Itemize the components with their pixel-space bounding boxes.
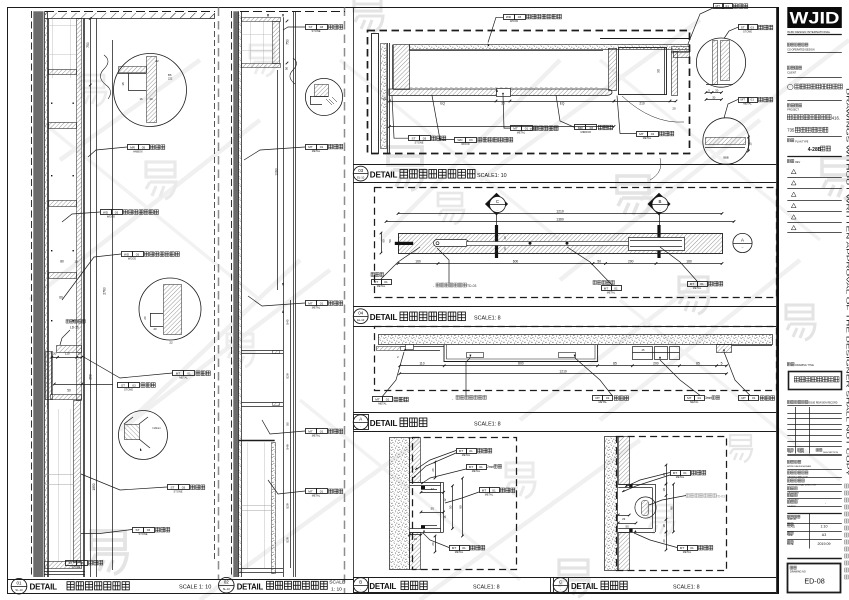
svg-text:B: B — [659, 199, 662, 204]
svg-text:EL-10: EL-10 — [357, 175, 365, 179]
svg-text:DRAWING NO: DRAWING NO — [790, 571, 806, 574]
svg-text:50: 50 — [597, 259, 601, 263]
svg-text:55: 55 — [431, 507, 435, 511]
svg-text:ST: ST — [309, 25, 313, 29]
svg-text:DETAIL: DETAIL — [370, 419, 398, 428]
svg-text:210: 210 — [639, 102, 645, 106]
svg-text:WOOD: WOOD — [128, 257, 136, 261]
svg-text:MT: MT — [469, 465, 474, 469]
svg-text:ST: ST — [171, 486, 175, 490]
svg-text:SL-10: SL-10 — [15, 588, 23, 592]
svg-text:528: 528 — [286, 373, 290, 378]
svg-text:=10mm: =10mm — [152, 426, 161, 430]
svg-text:1850: 1850 — [92, 483, 96, 490]
svg-text:01: 01 — [462, 546, 466, 550]
svg-text:DATE: DATE — [799, 451, 805, 454]
svg-text:ST: ST — [121, 383, 125, 387]
svg-text:ST: ST — [69, 561, 73, 565]
svg-text:ISSUE REVISION RECORD: ISSUE REVISION RECORD — [808, 402, 837, 404]
svg-text:1B: 1B — [662, 524, 666, 527]
svg-text:LD-16: LD-16 — [70, 325, 79, 329]
svg-text:PROJECT: PROJECT — [787, 109, 799, 112]
svg-text:A: A — [741, 238, 744, 243]
svg-text:MT: MT — [604, 286, 609, 290]
svg-text:4-28B: 4-28B — [808, 147, 822, 153]
svg-text:01: 01 — [320, 430, 324, 434]
svg-text:STONE: STONE — [743, 29, 752, 33]
svg-text:50: 50 — [448, 505, 452, 509]
svg-text:MT: MT — [741, 396, 746, 400]
svg-text:01: 01 — [651, 132, 655, 136]
svg-text:MT: MT — [716, 4, 721, 8]
svg-text:30: 30 — [712, 95, 716, 99]
svg-text:20: 20 — [153, 327, 157, 331]
svg-text:MT: MT — [680, 546, 685, 550]
svg-text:01: 01 — [187, 372, 191, 376]
svg-text:SCALE: SCALE — [329, 580, 346, 586]
svg-text:01: 01 — [690, 546, 694, 550]
svg-text:03: 03 — [115, 211, 119, 215]
svg-text:METAL: METAL — [455, 550, 464, 554]
svg-text:20: 20 — [78, 352, 82, 356]
svg-text:PLAN TYPE: PLAN TYPE — [795, 140, 809, 143]
svg-text:80: 80 — [458, 505, 462, 509]
svg-text:03: 03 — [147, 528, 151, 532]
svg-text:01: 01 — [320, 302, 324, 306]
svg-text:STONE: STONE — [415, 141, 424, 145]
svg-text:03: 03 — [751, 25, 755, 29]
svg-text:TD-03: TD-03 — [716, 494, 725, 498]
svg-text:800: 800 — [518, 362, 524, 366]
svg-text:DESCRIPTION: DESCRIPTION — [823, 452, 838, 454]
svg-text:METAL: METAL — [377, 284, 386, 288]
svg-text:SCALE1: 8: SCALE1: 8 — [473, 585, 500, 591]
svg-text:735: 735 — [787, 128, 795, 133]
svg-text:750: 750 — [86, 42, 90, 48]
svg-text:03: 03 — [132, 383, 136, 387]
svg-text:2019.09: 2019.09 — [818, 542, 831, 546]
svg-text:EQ: EQ — [560, 102, 565, 106]
svg-text:23: 23 — [414, 537, 418, 541]
svg-text:1060: 1060 — [275, 168, 279, 176]
svg-text:METAL: METAL — [743, 102, 752, 106]
svg-text:3mm: 3mm — [705, 396, 712, 400]
svg-text:DETAIL: DETAIL — [369, 582, 396, 591]
svg-text:01: 01 — [606, 396, 610, 400]
svg-text:--: -- — [742, 246, 744, 250]
svg-text:03: 03 — [182, 486, 186, 490]
svg-text:EQ: EQ — [440, 102, 445, 106]
svg-text:01: 01 — [752, 396, 756, 400]
svg-text:..: .. — [659, 207, 661, 211]
svg-text:WD: WD — [457, 138, 463, 142]
svg-text:85: 85 — [696, 362, 700, 366]
svg-text:MT: MT — [673, 471, 678, 475]
svg-text:SCALE1: 10: SCALE1: 10 — [477, 173, 507, 179]
svg-text:90: 90 — [657, 69, 661, 73]
svg-text:03: 03 — [358, 168, 363, 173]
svg-text:01: 01 — [384, 280, 388, 284]
svg-text:ST: ST — [741, 25, 745, 29]
svg-text:SCALE1: 8: SCALE1: 8 — [474, 422, 501, 428]
svg-text:B: B — [359, 579, 362, 584]
svg-text:STONE: STONE — [174, 490, 183, 494]
svg-text:01: 01 — [469, 449, 473, 453]
svg-text:C: C — [496, 199, 499, 204]
svg-text:01: 01 — [726, 4, 730, 8]
svg-text:540: 540 — [286, 319, 290, 324]
svg-text:WD: WD — [103, 211, 109, 215]
svg-text:..: .. — [497, 207, 499, 211]
svg-text:STONE: STONE — [124, 387, 133, 391]
svg-text:WD: WD — [506, 15, 512, 19]
svg-text:1: 10: 1: 10 — [331, 586, 342, 592]
svg-text:METAL: METAL — [312, 149, 321, 153]
svg-text:A3: A3 — [822, 533, 826, 537]
svg-text:DRAWINGS WITHOUT WRITTEN APPRO: DRAWINGS WITHOUT WRITTEN APPROVAL OF THE… — [846, 88, 849, 476]
svg-text:METAL: METAL — [312, 434, 321, 438]
svg-text:METAL: METAL — [312, 306, 321, 310]
svg-text:01: 01 — [751, 98, 755, 102]
svg-text:MT: MT — [741, 98, 746, 102]
svg-text:03: 03 — [518, 15, 522, 19]
svg-text:50: 50 — [285, 67, 289, 71]
svg-text:SCALE 1: 10: SCALE 1: 10 — [179, 585, 211, 591]
svg-text:WOOD: WOOD — [107, 215, 115, 219]
svg-text:SCALE1: 8: SCALE1: 8 — [673, 585, 700, 591]
svg-text:110: 110 — [419, 362, 424, 366]
svg-text:01: 01 — [700, 282, 704, 286]
svg-text:BBB: BBB — [723, 156, 728, 160]
svg-text:50: 50 — [286, 422, 290, 426]
svg-text:20: 20 — [431, 542, 435, 546]
svg-text:08: 08 — [80, 561, 84, 565]
svg-text:DRAWING TITLE: DRAWING TITLE — [795, 364, 814, 367]
svg-text:METAL: METAL — [607, 290, 616, 294]
svg-text:750: 750 — [286, 39, 290, 45]
svg-text:1210: 1210 — [559, 370, 567, 374]
svg-text:222: 222 — [168, 76, 173, 80]
svg-text:DETAIL: DETAIL — [571, 582, 598, 591]
svg-text:APPROVAL/DESIGNER: APPROVAL/DESIGNER — [787, 465, 811, 468]
svg-text:20: 20 — [672, 107, 676, 111]
svg-text:-: - — [360, 425, 361, 428]
svg-text:SCALE1: 8: SCALE1: 8 — [474, 316, 501, 322]
svg-text:WJID DESIGN INTERNATIONAL: WJID DESIGN INTERNATIONAL — [787, 30, 830, 34]
svg-text:CO-OPERATED DESIGN: CO-OPERATED DESIGN — [787, 48, 814, 51]
svg-text:16: 16 — [139, 97, 143, 101]
svg-text:MT: MT — [595, 396, 600, 400]
svg-text:03: 03 — [423, 137, 427, 141]
svg-text:50: 50 — [382, 97, 386, 101]
svg-text:MT: MT — [452, 546, 457, 550]
svg-text:METAL: METAL — [378, 402, 387, 406]
svg-text:1:10: 1:10 — [821, 525, 828, 529]
svg-text:MT: MT — [308, 145, 313, 149]
svg-text:METAL: METAL — [683, 550, 692, 554]
svg-text:-: - — [825, 502, 826, 506]
svg-text:01: 01 — [386, 398, 390, 402]
svg-text:01: 01 — [479, 465, 483, 469]
svg-text:METAL: METAL — [179, 376, 188, 380]
svg-text:PROFESSIONAL DIRECTOR: PROFESSIONAL DIRECTOR — [787, 484, 816, 487]
svg-text:22: 22 — [155, 59, 159, 63]
svg-text:04: 04 — [358, 311, 363, 316]
svg-text:MT: MT — [308, 302, 313, 306]
svg-text:STONE: STONE — [72, 565, 81, 569]
svg-text:DETAIL: DETAIL — [370, 313, 398, 322]
svg-text:WOOD: WOOD — [510, 19, 518, 23]
svg-text:01: 01 — [320, 145, 324, 149]
svg-text:MT: MT — [482, 488, 487, 492]
svg-text:METAL: METAL — [472, 469, 481, 473]
svg-text:MT: MT — [687, 396, 692, 400]
svg-text:200: 200 — [653, 362, 659, 366]
svg-text:01: 01 — [683, 471, 687, 475]
svg-text:5: 5 — [721, 362, 723, 366]
svg-text:05: 05 — [142, 146, 146, 150]
svg-text:ED-08: ED-08 — [804, 577, 824, 586]
svg-text:-: - — [560, 588, 561, 591]
svg-text:03: 03 — [320, 25, 324, 29]
svg-text:DETAIL: DETAIL — [370, 170, 398, 179]
svg-text:2mm: 2mm — [487, 465, 494, 469]
svg-text:160: 160 — [415, 259, 421, 263]
svg-text:ST: ST — [136, 528, 140, 532]
svg-text:SL-10: SL-10 — [223, 587, 231, 591]
svg-text:WD: WD — [124, 253, 130, 257]
svg-text:38: 38 — [121, 82, 125, 86]
svg-text:47: 47 — [431, 487, 435, 491]
svg-text:20: 20 — [715, 88, 719, 92]
svg-text:MT: MT — [513, 127, 518, 131]
svg-text:DETAIL: DETAIL — [30, 582, 58, 591]
svg-text:EL-10: EL-10 — [357, 318, 365, 322]
svg-text:20: 20 — [149, 97, 153, 101]
svg-text:02: 02 — [224, 580, 229, 585]
svg-text:60: 60 — [382, 239, 386, 243]
svg-text:DETAIL: DETAIL — [237, 582, 264, 591]
svg-text:1210: 1210 — [556, 209, 564, 213]
svg-text:200: 200 — [628, 259, 634, 263]
svg-text:CLIENT: CLIENT — [787, 71, 796, 74]
svg-text:METAL: METAL — [312, 494, 321, 498]
svg-text:01: 01 — [525, 127, 529, 131]
svg-text:METAL: METAL — [693, 286, 702, 290]
svg-text:REV: REV — [788, 452, 793, 454]
svg-text:10: 10 — [503, 236, 507, 240]
svg-text:10: 10 — [503, 247, 507, 251]
svg-text:REV: REV — [795, 161, 800, 164]
svg-text:50: 50 — [388, 239, 392, 243]
svg-text:15: 15 — [749, 142, 753, 146]
svg-text:20: 20 — [431, 468, 435, 472]
svg-text:55: 55 — [625, 525, 629, 529]
svg-text:WOOD: WOOD — [461, 142, 469, 146]
svg-text:MT: MT — [375, 398, 380, 402]
svg-text:MIRROR: MIRROR — [581, 130, 592, 134]
svg-text:03: 03 — [469, 138, 473, 142]
svg-text:1B: 1B — [662, 488, 666, 491]
svg-text:METAL: METAL — [462, 453, 471, 457]
svg-text:416.: 416. — [832, 116, 840, 121]
svg-text:01: 01 — [17, 581, 22, 586]
svg-text:HMBOX: HMBOX — [133, 150, 143, 154]
svg-text:01: 01 — [698, 396, 702, 400]
svg-text:METAL: METAL — [676, 475, 685, 479]
svg-text:80: 80 — [60, 260, 64, 264]
svg-text:WJID: WJID — [790, 10, 840, 28]
svg-text:METAL: METAL — [517, 131, 526, 135]
svg-text:MT: MT — [459, 449, 464, 453]
svg-text:23: 23 — [622, 517, 626, 521]
svg-text:JOB NO: JOB NO — [787, 518, 796, 521]
svg-text:/TD-03: /TD-03 — [466, 284, 476, 288]
svg-text:MR: MR — [578, 126, 584, 130]
svg-text:03: 03 — [590, 126, 594, 130]
svg-text:160: 160 — [686, 259, 692, 263]
svg-text:600: 600 — [513, 259, 519, 263]
svg-text:548: 548 — [286, 444, 290, 449]
svg-text:01: 01 — [492, 488, 496, 492]
svg-text:10: 10 — [74, 260, 78, 264]
svg-text:50: 50 — [67, 389, 71, 393]
svg-text:BS: BS — [168, 73, 172, 77]
svg-text:03: 03 — [136, 253, 140, 257]
svg-text:528: 528 — [286, 503, 290, 508]
svg-text:MT: MT — [374, 280, 379, 284]
svg-text:20: 20 — [662, 539, 666, 542]
svg-text:80: 80 — [669, 506, 673, 510]
svg-text:01: 01 — [614, 286, 618, 290]
svg-text:528: 528 — [286, 537, 290, 542]
svg-text:110: 110 — [65, 352, 70, 356]
svg-text:22: 22 — [169, 341, 173, 345]
svg-text:MT: MT — [690, 282, 695, 286]
svg-text:1360: 1360 — [556, 217, 564, 221]
svg-text:-: - — [360, 588, 361, 591]
svg-text:A: A — [359, 417, 362, 422]
svg-text:METAL: METAL — [485, 492, 494, 496]
svg-text:C: C — [559, 579, 562, 584]
svg-text:STONE: STONE — [312, 29, 321, 33]
svg-text:METAL: METAL — [643, 136, 652, 140]
svg-text:85: 85 — [613, 362, 617, 366]
svg-text:20: 20 — [143, 316, 147, 320]
svg-text:METAL: METAL — [598, 400, 607, 404]
svg-text:20: 20 — [53, 352, 57, 356]
svg-text:MT: MT — [308, 430, 313, 434]
svg-text:01: 01 — [320, 490, 324, 494]
svg-text:ST: ST — [412, 137, 416, 141]
svg-text:MR: MR — [130, 146, 136, 150]
svg-text:2760: 2760 — [103, 287, 107, 295]
svg-text:MT: MT — [308, 490, 313, 494]
svg-text:MT: MT — [176, 372, 181, 376]
svg-text:METAL: METAL — [690, 400, 699, 404]
svg-text:MT: MT — [639, 132, 644, 136]
svg-text:STONE: STONE — [139, 532, 148, 536]
